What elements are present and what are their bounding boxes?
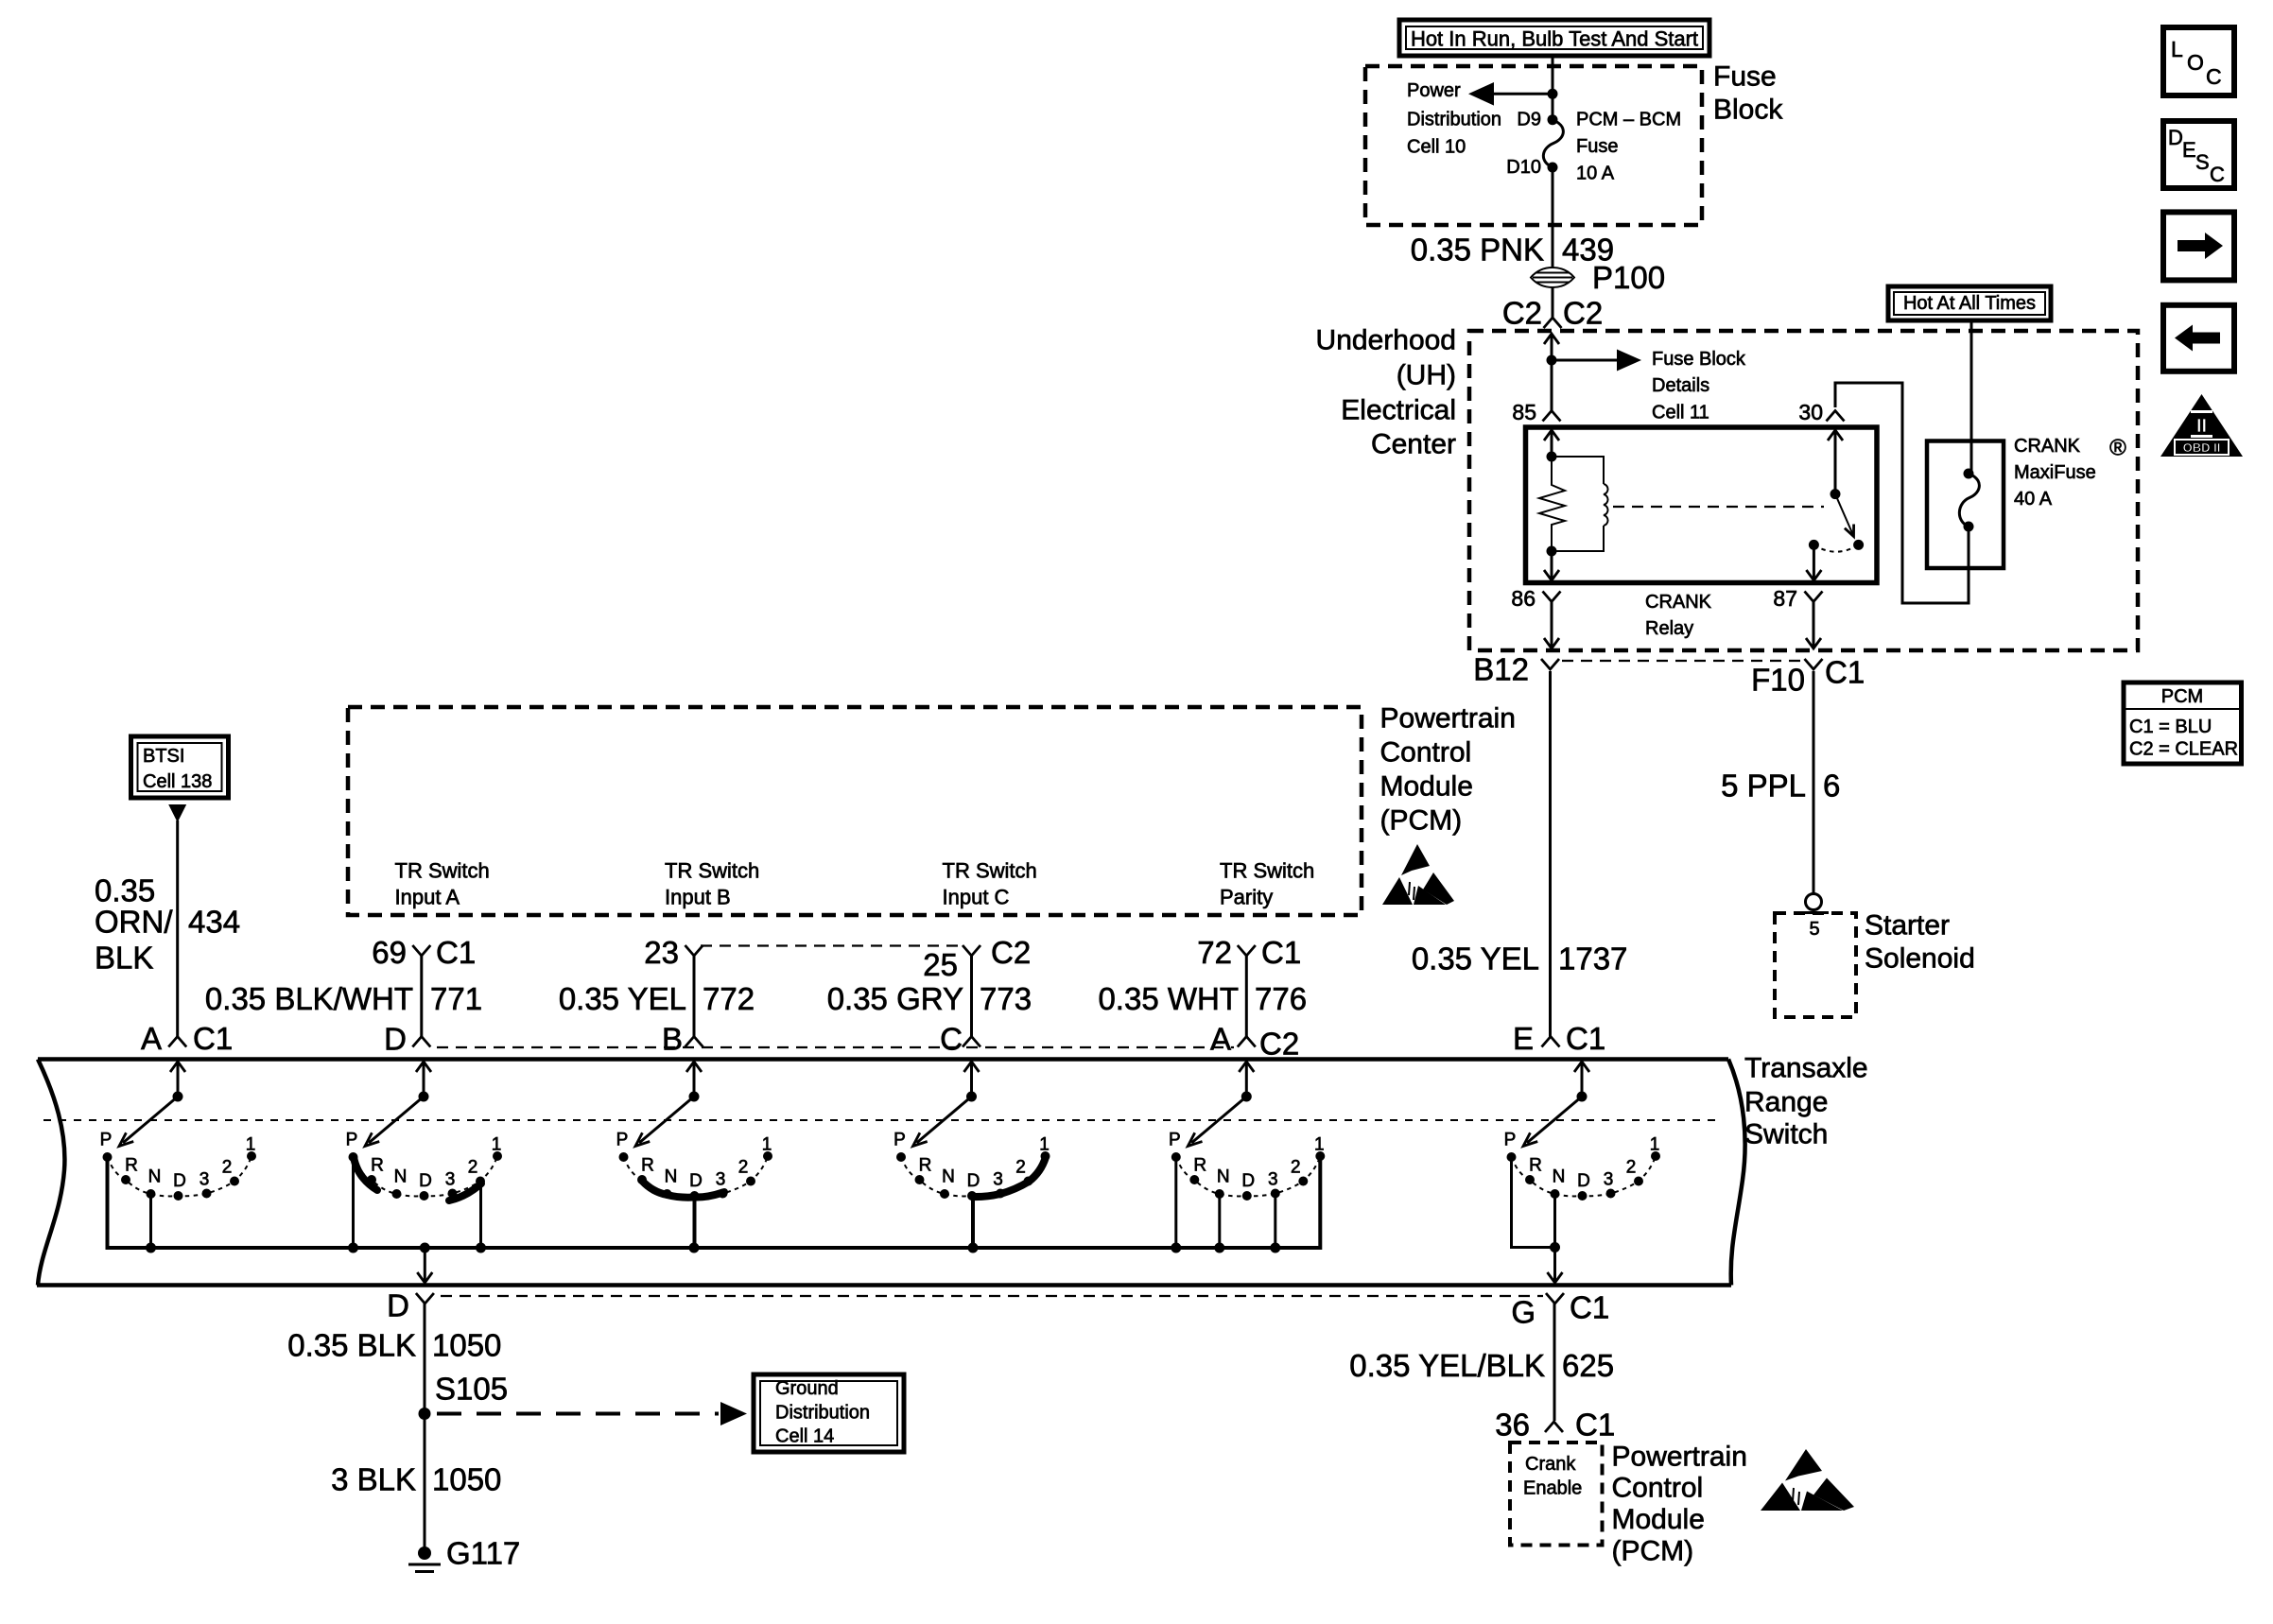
svg-text:0.35: 0.35 [95, 873, 155, 908]
svg-text:D: D [1241, 1171, 1255, 1191]
label Fuse Block [1713, 61, 1783, 126]
svg-text:C2: C2 [1259, 1027, 1299, 1062]
svg-text:D: D [967, 1171, 980, 1191]
icon arrow right [2163, 212, 2234, 280]
label TR Switch Input A [395, 859, 490, 909]
svg-text:P: P [616, 1131, 629, 1150]
TR switch wiper A2: entry arrow [1239, 1062, 1254, 1102]
svg-text:PCM: PCM [2161, 686, 2203, 707]
wire: 86 to B12 w/ exit arrow [1544, 602, 1559, 649]
svg-text:Fuse: Fuse [1576, 136, 1618, 157]
svg-text:85: 85 [1512, 400, 1536, 424]
svg-text:E: E [2182, 138, 2196, 162]
TR switch C: contact labels [894, 1131, 1050, 1192]
svg-text:86: 86 [1511, 586, 1536, 611]
pin 25 / C2 [923, 935, 1031, 982]
label 5 PPL 6 [1721, 769, 1840, 803]
wire 771 BLK/WHT [420, 956, 423, 1037]
TR switch A2: contact drop wire [1218, 1196, 1221, 1248]
svg-text:P: P [1169, 1131, 1181, 1150]
svg-text:Solenoid: Solenoid [1865, 943, 1975, 975]
pin D10 [1506, 157, 1541, 178]
svg-text:1050: 1050 [432, 1328, 501, 1363]
TR switch wiper B: entry arrow [686, 1062, 702, 1102]
svg-text:Module: Module [1380, 771, 1473, 803]
wire 772 YEL [693, 956, 696, 1037]
svg-text:S105: S105 [435, 1372, 508, 1407]
svg-text:0.35 YEL/BLK: 0.35 YEL/BLK [1349, 1348, 1545, 1383]
label 0.35 WHT 776 [1098, 981, 1307, 1016]
svg-text:R: R [1529, 1156, 1542, 1176]
svg-text:R: R [1193, 1156, 1206, 1176]
svg-text:C1: C1 [1825, 655, 1865, 690]
label Power Distribution Cell 10 [1407, 80, 1501, 158]
svg-text:3: 3 [716, 1170, 726, 1190]
connector dashes D-B-C-A-E [437, 1046, 1234, 1048]
svg-text:B: B [662, 1022, 683, 1057]
icon arrow left [2163, 305, 2234, 371]
svg-text:Ground: Ground [775, 1378, 839, 1399]
pin 69 / C1 [372, 935, 476, 970]
svg-text:0.35 PNK: 0.35 PNK [1411, 232, 1544, 267]
TR switch wiper E: arm [1523, 1097, 1582, 1147]
TR switch A: contact drop wire [149, 1196, 152, 1248]
svg-text:(UH): (UH) [1397, 360, 1456, 391]
svg-text:PCM – BCM: PCM – BCM [1576, 110, 1681, 130]
svg-text:Power: Power [1407, 80, 1461, 101]
svg-text:C2: C2 [991, 935, 1031, 970]
svg-text:TR Switch: TR Switch [395, 859, 490, 883]
svg-text:Hot At All Times: Hot At All Times [1903, 293, 2036, 314]
dashed link: coil to switch [1613, 506, 1824, 508]
svg-text:Control: Control [1612, 1473, 1704, 1504]
svg-text:C: C [2210, 163, 2225, 186]
svg-text:R: R [919, 1156, 932, 1176]
relay switch branch: entry from 30 [1828, 430, 1843, 499]
svg-text:2: 2 [1291, 1158, 1301, 1178]
wire 776 WHT [1245, 956, 1248, 1037]
svg-text:C1: C1 [1566, 1021, 1605, 1056]
label 0.35 YEL/BLK 625 [1349, 1348, 1614, 1383]
svg-text:Control: Control [1380, 737, 1472, 769]
TR switch A: contact labels [100, 1131, 256, 1192]
connector C2 / C2 [1502, 296, 1603, 331]
PCM connector legend box [2124, 682, 2242, 764]
TR switch E: N contact drop [1550, 1196, 1560, 1253]
wire: 87 to F10 w/ exit arrow [1806, 602, 1821, 649]
svg-text:N: N [1553, 1167, 1566, 1187]
icon LOC [2163, 27, 2234, 95]
svg-text:R: R [125, 1156, 138, 1176]
svg-text:10 A: 10 A [1576, 164, 1615, 184]
svg-text:30: 30 [1798, 400, 1823, 424]
label CRANK MaxiFuse 40 A [2014, 436, 2126, 510]
wire 439 PNK [1552, 167, 1554, 318]
svg-text:Cell 14: Cell 14 [775, 1426, 834, 1447]
svg-text:N: N [665, 1167, 678, 1187]
connector dashes 23 to 25 [701, 944, 964, 946]
TR switch E: P contact drop [1512, 1159, 1555, 1248]
node: fuse block feed junction [1548, 89, 1558, 99]
svg-text:Hot In Run, Bulb Test And Star: Hot In Run, Bulb Test And Start [1411, 27, 1698, 51]
TR switch wiper E: entry arrow [1574, 1062, 1589, 1102]
svg-text:Range: Range [1744, 1087, 1828, 1118]
svg-text:Cell 138: Cell 138 [143, 771, 212, 792]
svg-text:Details: Details [1652, 375, 1709, 396]
svg-text:Parity: Parity [1220, 886, 1273, 909]
BTSI Cell 138 box [131, 736, 229, 798]
svg-text:2: 2 [738, 1158, 749, 1178]
svg-text:Relay: Relay [1645, 618, 1693, 639]
wire: junction to relay pin 85 [1551, 360, 1553, 411]
svg-text:87: 87 [1773, 586, 1797, 611]
TR switch A2: contact drop wire [1174, 1159, 1177, 1248]
wire 1050 BLK (upper) [424, 1304, 426, 1414]
svg-text:3: 3 [1268, 1170, 1278, 1190]
svg-text:3: 3 [445, 1170, 456, 1190]
label box: Hot In Run, Bulb Test And Start [1399, 20, 1709, 56]
node: coil top [1547, 452, 1557, 462]
svg-text:0.35 YEL: 0.35 YEL [559, 981, 686, 1016]
svg-text:D: D [1577, 1171, 1590, 1191]
TR switch A: contact drop wire [106, 1159, 109, 1248]
label Starter Solenoid [1865, 910, 1975, 975]
label 0.35 GRY 773 [827, 981, 1032, 1016]
coil (relay winding) [1552, 457, 1608, 551]
pin E / C1 (TR switch) [1513, 1021, 1605, 1056]
node: underhood feed junction [1547, 355, 1557, 366]
svg-text:5: 5 [1809, 919, 1819, 940]
svg-text:Input B: Input B [665, 886, 731, 909]
svg-text:R: R [371, 1156, 384, 1176]
pin D (TR switch output) [387, 1288, 434, 1323]
TR switch D: contact arc [349, 1151, 503, 1201]
svg-text:Switch: Switch [1744, 1119, 1828, 1150]
TR switch D: contact labels [346, 1131, 502, 1192]
svg-text:G: G [1511, 1295, 1536, 1330]
svg-text:0.35 WHT: 0.35 WHT [1098, 981, 1239, 1016]
underhood (UH) electrical center dashed box [1469, 331, 2138, 650]
pin 72 / C1 [1197, 935, 1301, 970]
svg-text:D: D [173, 1171, 186, 1191]
svg-text:434: 434 [188, 905, 240, 940]
svg-text:Powertrain: Powertrain [1612, 1442, 1747, 1473]
pin G / C1 (TR switch output) [1511, 1290, 1609, 1330]
svg-text:Input C: Input C [943, 886, 1010, 909]
svg-text:C2: C2 [1502, 296, 1542, 331]
svg-text:Block: Block [1713, 95, 1783, 126]
svg-text:L: L [2171, 37, 2183, 61]
label box: Hot At All Times [1888, 286, 2051, 320]
svg-text:6: 6 [1823, 769, 1840, 803]
svg-text:23: 23 [644, 935, 679, 970]
wire 625 YEL/BLK [1553, 1304, 1556, 1421]
TR switch common ground bus [108, 1158, 1321, 1248]
transaxle box: left wavy edge [38, 1060, 64, 1286]
svg-text:BLK: BLK [95, 941, 153, 976]
ESD symbol (PCM lower) [1761, 1449, 1854, 1511]
TR switch D: contact strip [354, 1157, 377, 1190]
svg-text:D: D [2168, 126, 2183, 149]
pin B12 [1473, 652, 1559, 687]
svg-text:2: 2 [1626, 1158, 1637, 1178]
wire 1050 BLK (lower) [424, 1414, 426, 1551]
svg-text:3: 3 [1604, 1170, 1614, 1190]
label TR Switch Parity [1220, 859, 1314, 909]
svg-text:C2 = CLEAR: C2 = CLEAR [2129, 738, 2238, 759]
svg-text:1: 1 [1039, 1135, 1050, 1155]
svg-text:Module: Module [1612, 1504, 1705, 1535]
label PCM-BCM Fuse 10 A [1576, 110, 1681, 184]
entry arrow: C2 into underhood box [1544, 334, 1559, 360]
wire: maxifuse to relay pin 30 [1835, 383, 1969, 603]
svg-text:Crank: Crank [1525, 1454, 1576, 1475]
svg-text:Powertrain: Powertrain [1380, 703, 1516, 734]
svg-text:ORN/: ORN/ [95, 905, 173, 940]
transaxle box: right wavy edge [1728, 1060, 1745, 1286]
svg-text:Fuse Block: Fuse Block [1652, 349, 1746, 370]
crank relay box [1526, 427, 1878, 583]
inline connector P100 [1531, 260, 1665, 295]
crank enable dashed box [1510, 1443, 1603, 1546]
svg-text:D: D [384, 1022, 407, 1057]
svg-text:Cell 11: Cell 11 [1652, 403, 1709, 423]
svg-text:36: 36 [1495, 1408, 1530, 1443]
TR switch D: contact drop wire [352, 1159, 355, 1248]
TR switch wiper A: arm [119, 1097, 178, 1147]
fuse: PCM-BCM Fuse 10 A [1543, 120, 1563, 173]
icon OBD II triangle [2160, 394, 2243, 457]
arrow from BTSI [168, 804, 186, 822]
relay switch wiper arm [1835, 494, 1854, 537]
TR switch A: contact arc [103, 1151, 257, 1201]
pin F10 / C1 [1751, 655, 1865, 698]
svg-text:2: 2 [1015, 1158, 1026, 1178]
node: coil bottom [1547, 546, 1557, 557]
connector dashes D to G [441, 1295, 1543, 1297]
wire: hot feed into fuse block [1552, 56, 1554, 120]
svg-text:C1 = BLU: C1 = BLU [2129, 717, 2212, 737]
svg-text:P100: P100 [1592, 260, 1665, 295]
svg-text:CRANK: CRANK [1645, 592, 1712, 613]
wire 773 GRY [970, 956, 973, 1037]
label TR Switch Input B [665, 859, 759, 909]
pin B (TR switch) [662, 1022, 703, 1057]
pin 87 [1773, 586, 1822, 611]
TR switch A2: contact drop wire [1274, 1195, 1276, 1248]
label 0.35 YEL 1737 [1412, 942, 1628, 976]
wire: contact to pin 87 w/ exit arrow [1806, 544, 1821, 580]
svg-text:CRANK: CRANK [2014, 436, 2081, 457]
label Powertrain Control Module (PCM) lower [1612, 1442, 1747, 1567]
svg-text:C: C [940, 1022, 963, 1057]
svg-text:Electrical: Electrical [1341, 395, 1456, 426]
svg-text:625: 625 [1562, 1348, 1614, 1383]
svg-text:S: S [2195, 150, 2210, 174]
svg-text:C1: C1 [1575, 1408, 1615, 1443]
pin C (TR switch) [940, 1022, 980, 1057]
TR switch A2: contact arc [1171, 1151, 1326, 1201]
relay coil branch: entry arrow [1544, 430, 1559, 457]
svg-text:F10: F10 [1751, 663, 1805, 698]
label 0.35 YEL 772 [559, 981, 755, 1016]
svg-text:773: 773 [980, 981, 1032, 1016]
svg-text:D10: D10 [1506, 157, 1541, 178]
TR switch wiper D: entry arrow [416, 1062, 431, 1102]
svg-text:BTSI: BTSI [143, 746, 184, 767]
pin 86 [1511, 586, 1560, 611]
svg-text:OBD II: OBD II [2183, 441, 2221, 455]
fuse element: CRANK MaxiFuse [1959, 469, 1979, 532]
svg-text:772: 772 [703, 981, 755, 1016]
svg-text:®: ® [2109, 436, 2126, 461]
powertrain control module (PCM) dashed box [348, 707, 1362, 915]
svg-text:Underhood: Underhood [1316, 325, 1456, 356]
TR switch C: contact drop wire [971, 1199, 975, 1248]
pin D (TR switch) [384, 1022, 430, 1057]
svg-text:A: A [141, 1021, 162, 1056]
svg-text:3: 3 [200, 1170, 210, 1190]
TR switch wiper C: arm [913, 1097, 972, 1147]
crank maxifuse box [1927, 441, 2004, 569]
resistor (relay) [1539, 457, 1565, 551]
pin 23 [644, 935, 703, 970]
svg-text:P: P [100, 1131, 113, 1150]
svg-text:1: 1 [762, 1135, 772, 1155]
svg-text:1: 1 [492, 1135, 502, 1155]
TR switch wiper A2: arm [1188, 1097, 1246, 1147]
label box: Ground Distribution Cell 14 [754, 1374, 904, 1452]
svg-text:771: 771 [430, 981, 482, 1016]
svg-text:P: P [894, 1131, 906, 1150]
label TR Switch Input C [943, 859, 1037, 909]
pin A / C2 (TR switch) [1210, 1022, 1299, 1062]
label 0.35 BLK/WHT 771 [205, 981, 482, 1016]
label 0.35 ORN/BLK 434 [95, 873, 240, 976]
TR switch E: contact arc [1507, 1151, 1661, 1201]
svg-text:E: E [1513, 1021, 1534, 1056]
svg-text:G117: G117 [446, 1536, 520, 1571]
TR switch E: contact labels [1504, 1131, 1660, 1192]
TR switch wiper A: entry arrow [170, 1062, 185, 1102]
wire/arrow to Fuse Block Details [1552, 350, 1641, 371]
splice S105 [419, 1372, 509, 1421]
icon DESC [2163, 121, 2234, 188]
svg-text:1: 1 [246, 1135, 256, 1155]
svg-text:A: A [1210, 1022, 1231, 1057]
starter solenoid dashed box [1775, 913, 1856, 1017]
TR switch B: contact drop wire [693, 1198, 697, 1248]
wire: coil to pin 86 w/ exit arrow [1544, 551, 1559, 580]
TR switch D: contact drop wire [479, 1184, 482, 1248]
svg-text:TR Switch: TR Switch [665, 859, 759, 883]
TR switch C: contact arc [896, 1151, 1050, 1201]
svg-text:0.35 BLK: 0.35 BLK [287, 1328, 416, 1363]
ring terminal pin 5 [1799, 894, 1829, 941]
fuse block dashed box [1365, 66, 1702, 225]
pin 30 [1798, 400, 1844, 424]
svg-text:C1: C1 [1570, 1290, 1609, 1325]
wire 434 ORN/BLK [176, 821, 179, 1037]
svg-text:N: N [148, 1167, 162, 1187]
svg-text:0.35 GRY: 0.35 GRY [827, 981, 963, 1016]
svg-text:II: II [2196, 416, 2207, 437]
svg-text:B12: B12 [1473, 652, 1529, 687]
TR switch A2: contact drop wire [1319, 1158, 1322, 1248]
svg-text:2: 2 [222, 1158, 233, 1178]
svg-text:C1: C1 [436, 935, 476, 970]
TR switch wiper C: entry arrow [964, 1062, 980, 1102]
svg-text:3 BLK: 3 BLK [331, 1462, 416, 1497]
svg-text:Input A: Input A [395, 886, 460, 909]
TR switch C: contact strip [972, 1157, 1046, 1197]
svg-text:Transaxle: Transaxle [1744, 1053, 1868, 1084]
svg-text:C2: C2 [1563, 296, 1603, 331]
svg-text:TR Switch: TR Switch [943, 859, 1037, 883]
label Underhood (UH) Electrical Center [1316, 325, 1456, 460]
svg-text:776: 776 [1255, 981, 1307, 1016]
svg-text:Cell 10: Cell 10 [1407, 137, 1466, 158]
connector dashes B12 to F10 [1562, 660, 1802, 662]
wire 1737 YEL (B12 to TR switch E) [1549, 671, 1552, 1037]
label Powertrain Control Module (PCM) [1380, 703, 1516, 837]
svg-text:1737: 1737 [1558, 942, 1627, 976]
label 0.35 BLK 1050 [287, 1328, 501, 1363]
svg-text:1050: 1050 [432, 1462, 501, 1497]
relay contacts 87 side [1809, 540, 1864, 552]
svg-text:Distribution: Distribution [1407, 110, 1501, 130]
label 3 BLK 1050 [331, 1462, 501, 1497]
label Crank Enable [1523, 1454, 1582, 1499]
transaxle box: internal dashed line [43, 1119, 1716, 1121]
label Transaxle Range Switch [1744, 1053, 1868, 1150]
svg-text:0.35 BLK/WHT: 0.35 BLK/WHT [205, 981, 413, 1016]
wire: hot at all times feed to maxifuse [1970, 320, 1973, 474]
pin 85 [1512, 400, 1560, 424]
svg-text:Distribution: Distribution [775, 1403, 870, 1424]
svg-text:Fuse: Fuse [1713, 61, 1777, 93]
TR switch D: contact strip [449, 1183, 481, 1201]
svg-text:1: 1 [1650, 1135, 1660, 1155]
svg-text:69: 69 [372, 935, 407, 970]
svg-text:5 PPL: 5 PPL [1721, 769, 1806, 803]
pin A / C1 (BTSI to TR switch) [141, 1021, 233, 1056]
transaxle box: bottom edge [37, 1283, 1731, 1287]
ground G117 [408, 1536, 520, 1572]
pin D9 [1517, 110, 1557, 130]
svg-text:P: P [346, 1131, 358, 1150]
svg-text:D: D [387, 1288, 409, 1323]
svg-text:Center: Center [1371, 429, 1456, 460]
pin 36 / C1 (PCM crank enable) [1495, 1408, 1615, 1443]
svg-text:(PCM): (PCM) [1612, 1536, 1694, 1567]
bus junction nodes [146, 1243, 1280, 1253]
svg-text:N: N [942, 1167, 955, 1187]
label Fuse Block Details Cell 11 [1652, 349, 1746, 423]
TR switch B: contact labels [616, 1131, 772, 1192]
svg-text:R: R [641, 1156, 654, 1176]
svg-text:N: N [1217, 1167, 1230, 1187]
svg-text:P: P [1504, 1131, 1517, 1150]
wire 6 PPL (F10 to starter solenoid) [1813, 671, 1815, 894]
svg-text:O: O [2187, 50, 2204, 75]
TR switch wiper D: arm [365, 1097, 424, 1147]
TR switch B: contact strip [642, 1181, 724, 1198]
svg-text:Enable: Enable [1523, 1478, 1582, 1499]
svg-text:D: D [689, 1171, 703, 1191]
wire/arrow to Power Distribution [1468, 82, 1553, 106]
svg-text:3: 3 [993, 1170, 1003, 1190]
